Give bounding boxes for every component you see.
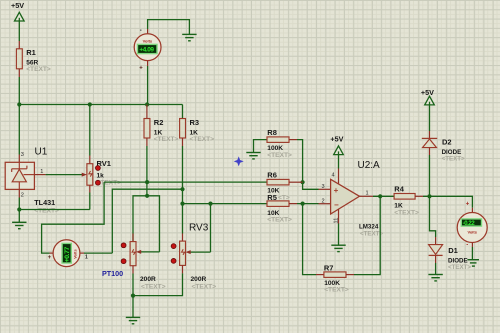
ground (PT100): [126, 317, 140, 323]
node diode tap: [427, 194, 431, 198]
wire bus A horizontal: [19, 104, 182, 106]
svg-text:PT100: PT100: [102, 269, 123, 278]
wire R2 bottom through bus B to line E: [146, 146, 148, 196]
svg-text:4: 4: [332, 173, 335, 179]
svg-text:2: 2: [21, 193, 24, 199]
svg-text:Volts: Volts: [72, 249, 77, 259]
svg-text:3: 3: [21, 152, 24, 158]
wire R8 to pin3 bus: [297, 140, 319, 190]
node R6 right: [301, 180, 305, 184]
power +5V (top left): [11, 1, 24, 41]
node RV3 wiper / R5 line: [208, 202, 212, 206]
wire bus B horizontal (R2 bottom to R6): [104, 181, 267, 183]
svg-text:1: 1: [40, 169, 43, 175]
resistor R5: [183, 193, 298, 224]
ground (U1): [12, 222, 26, 228]
node bus B / R2 bottom: [145, 180, 149, 184]
power +5V (op-amp): [330, 135, 343, 169]
wire D2 to node: [429, 155, 431, 196]
origin marker: [234, 156, 244, 166]
svg-text:U1: U1: [35, 146, 48, 157]
svg-text:<TEXT>: <TEXT>: [442, 156, 465, 163]
resistor R2: [144, 105, 179, 147]
svg-text:-0.22: -0.22: [463, 221, 476, 227]
svg-text:<TEXT>: <TEXT>: [34, 207, 59, 214]
resistor R8: [267, 128, 297, 159]
potentiometer RV1: [46, 156, 122, 193]
node A junction dots: [17, 102, 21, 106]
voltmeter VM2 (-0.22): [457, 201, 487, 248]
svg-text:<TEXT>: <TEXT>: [26, 66, 51, 73]
node U1-anode junction: [17, 207, 21, 211]
svg-text:2: 2: [322, 198, 325, 204]
wire R7 right up to output: [354, 196, 380, 274]
svg-text:R1: R1: [26, 48, 36, 57]
resistor R4: [394, 184, 423, 216]
diode D1: [429, 237, 472, 271]
svg-text:+5V: +5V: [330, 135, 343, 144]
wire RV1 bottom to U1 node: [89, 193, 91, 210]
svg-text:3: 3: [322, 184, 325, 190]
svg-text:200R: 200R: [140, 276, 156, 283]
svg-text:+: +: [334, 186, 339, 195]
power +5V (D2): [421, 88, 434, 131]
svg-text:+: +: [48, 255, 52, 261]
svg-text:R3: R3: [190, 118, 200, 127]
node PT100/RV3 ground: [131, 294, 135, 298]
wire node A down to RV1 top: [89, 105, 91, 156]
ground (VM2): [467, 260, 479, 266]
svg-text:RV3: RV3: [189, 223, 209, 234]
wire pin2 bus down to R7: [303, 204, 316, 275]
op-amp U2:A: [319, 160, 384, 237]
wire node A down to U1: [18, 105, 20, 155]
ground (D1): [428, 275, 442, 281]
op-amp/TL431 U1: [5, 146, 59, 214]
wire VM1 bottom to node A: [147, 66, 149, 105]
wire R5 to pin2: [297, 203, 319, 205]
wire R4 to VM2 corner: [423, 196, 472, 208]
svg-text:1: 1: [85, 255, 88, 261]
svg-text:1: 1: [366, 191, 369, 197]
svg-text:+5V: +5V: [11, 1, 24, 10]
svg-text:R7: R7: [324, 263, 334, 272]
wire U1 anode node: [18, 198, 20, 223]
svg-text:<TEXT>: <TEXT>: [190, 136, 215, 143]
svg-text:<TEXT>: <TEXT>: [154, 136, 179, 143]
node output: [378, 194, 382, 198]
potentiometer PT100: [102, 234, 166, 291]
resistor R3: [180, 118, 215, 146]
svg-text:R6: R6: [267, 171, 277, 180]
wire bus C (VM3 minus to R3 column): [112, 189, 182, 253]
svg-text:Volts: Volts: [143, 38, 153, 43]
svg-text:<TEXT>: <TEXT>: [192, 283, 217, 290]
svg-text:R8: R8: [267, 128, 277, 137]
svg-text:<TEXT>: <TEXT>: [141, 283, 166, 290]
wire node A corner down to R3: [182, 105, 184, 119]
svg-text:<TEXT>: <TEXT>: [267, 152, 292, 159]
wire bus B left Z to VM3 plus: [42, 182, 105, 253]
wire VM2 to ground: [471, 247, 473, 260]
svg-text:R2: R2: [154, 118, 164, 127]
potentiometer RV3: [171, 223, 216, 291]
svg-text:U2:A: U2:A: [358, 160, 381, 171]
svg-text:-: -: [140, 28, 142, 34]
svg-text:<TEXT>: <TEXT>: [448, 264, 471, 271]
svg-text:200R: 200R: [191, 276, 207, 283]
svg-text:+: +: [466, 201, 470, 207]
wire pin11 to ground: [338, 224, 340, 246]
resistor R7: [316, 263, 354, 293]
wire D1 to ground: [435, 263, 437, 275]
ground (VM1): [182, 34, 196, 40]
svg-text:−: −: [334, 201, 339, 210]
svg-text:D2: D2: [442, 137, 452, 146]
resistor R1: [16, 41, 51, 77]
node pin2 bus: [301, 202, 305, 206]
wire VM1 top to ground: [148, 20, 190, 35]
node R3/R5 line: [180, 202, 184, 206]
svg-text:Volts: Volts: [467, 230, 477, 235]
wire VM3 minus to bus C riser: [84, 252, 112, 254]
svg-text:D1: D1: [448, 246, 458, 255]
wire output to R4: [373, 195, 394, 197]
svg-text:<TEXT>: <TEXT>: [267, 217, 292, 224]
wire PT100 bottom to ground node: [132, 274, 134, 318]
svg-text:<TEXT>: <TEXT>: [324, 287, 349, 294]
svg-text:+0.77: +0.77: [64, 246, 71, 262]
wire RV3 bottom link: [133, 273, 183, 295]
wire RV3 wiper riser to R5 line: [210, 204, 212, 253]
wire line E (PT100 top and wiper): [133, 196, 160, 252]
resistor R6: [267, 171, 303, 195]
svg-text:+4.09: +4.09: [139, 47, 154, 54]
svg-text:R4: R4: [394, 184, 404, 193]
wire R1 to node A: [18, 77, 20, 105]
node line E tap: [145, 194, 149, 198]
diode D2: [422, 131, 465, 163]
svg-text:+: +: [139, 65, 143, 71]
ground (R8): [246, 153, 260, 159]
svg-text:TL431: TL431: [34, 198, 55, 207]
voltmeter VM3 (+0.77, rotated): [48, 240, 88, 267]
svg-text:<TEXT>: <TEXT>: [394, 209, 419, 216]
voltmeter VM1 (+4.09): [134, 28, 161, 71]
wire U1 node to RV1 bottom: [19, 209, 90, 211]
node R3/bus C: [180, 187, 184, 191]
wire R8 left to ground: [254, 140, 268, 153]
svg-text:-: -: [466, 243, 468, 249]
svg-text:+5V: +5V: [421, 88, 434, 97]
ground (op-amp): [331, 245, 345, 251]
wire node to D1: [430, 196, 436, 237]
svg-text:11: 11: [333, 218, 339, 224]
wire R3 bottom column down to RV3: [182, 146, 184, 234]
